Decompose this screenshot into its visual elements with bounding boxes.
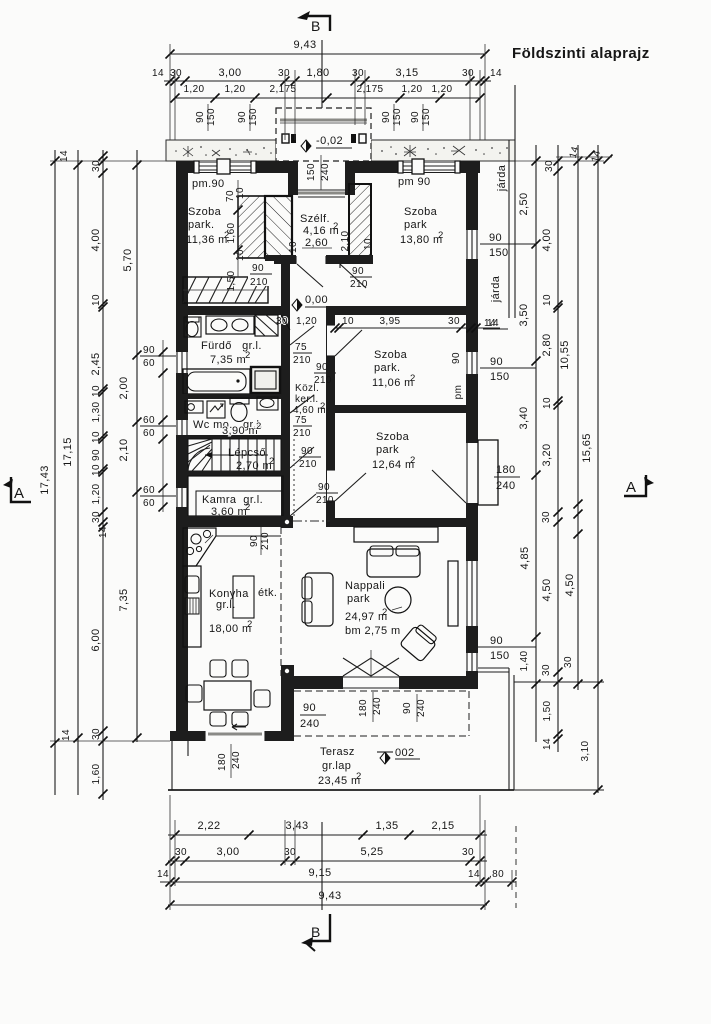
left wall tick line [159,340,168,512]
svg-text:180: 180 [217,753,228,771]
left inner dim col 5,70 2,00 2,10 7,35 [118,150,142,743]
svg-text:3,00: 3,00 [218,67,241,79]
door opening hall to szoba 13,80 (in szelfogo bottom-right) [339,305,341,307]
svg-text:10: 10 [91,294,102,306]
left wall window dims 60/60 [140,415,176,439]
right jarda outer lines [508,140,510,318]
svg-text:9,15: 9,15 [308,867,331,879]
svg-text:3,20: 3,20 [541,443,553,466]
svg-text:60: 60 [143,358,155,369]
svg-text:14: 14 [152,68,164,79]
svg-text:30: 30 [91,160,102,172]
svg-text:3,95: 3,95 [379,316,400,327]
svg-text:150: 150 [490,371,510,383]
svg-text:2,10: 2,10 [118,438,130,461]
swing szoba 12,64 terrace door [432,470,466,503]
svg-text:7,35 m: 7,35 m [210,354,246,366]
svg-text:90: 90 [252,263,264,274]
right top corner 14 14 [556,145,613,163]
svg-text:180: 180 [496,464,516,476]
svg-text:210: 210 [299,459,317,470]
svg-text:1,35: 1,35 [375,820,398,832]
left wall window dims 60/60 lower [140,485,176,509]
section trace B top [321,40,323,108]
svg-text:30: 30 [462,68,474,79]
szelfogo door opening to hall [296,255,326,264]
porch posts right [351,134,356,143]
svg-text:14: 14 [468,869,480,880]
svg-text:30: 30 [91,728,102,740]
nappali SE wall corner to fence [466,671,478,689]
svg-text:180: 180 [358,699,369,717]
svg-text:90: 90 [489,232,502,244]
svg-text:30: 30 [541,664,552,676]
dotted upper-floor edge along hall [293,439,295,516]
door swing szelfogo-hall [297,264,323,287]
wall between wc and stairs [176,435,281,439]
wardrobe hatched block right of szelfogo [349,184,371,258]
svg-text:240: 240 [231,751,242,769]
svg-text:90: 90 [91,449,102,461]
nappali sofa left [302,573,333,626]
svg-text:2: 2 [269,456,275,467]
bottom dim row 4: 9,43 [166,890,490,910]
wall between szoba 11,06 and 12,64 [330,405,466,413]
svg-text:60: 60 [143,498,155,509]
svg-text:0,00: 0,00 [305,294,328,306]
section marker B top [297,11,330,34]
washing machine dark [251,367,280,393]
svg-text:240: 240 [496,480,516,492]
svg-text:10: 10 [342,316,354,327]
svg-text:17,43: 17,43 [39,465,51,495]
right terrace door dim 180/240 [494,464,520,492]
level mark -0,02 [301,140,311,152]
wardrobe hatched block szelfogo left wall [265,196,292,258]
svg-text:14: 14 [487,318,499,329]
svg-text:90: 90 [410,111,421,123]
svg-text:2: 2 [382,607,388,618]
svg-text:90: 90 [352,266,364,277]
svg-text:15,65: 15,65 [581,433,593,463]
svg-text:Szoba: Szoba [404,206,438,218]
svg-text:2: 2 [245,502,251,513]
door gap hall to szoba 12,64 [327,470,335,501]
svg-text:1,20: 1,20 [91,483,102,504]
right wall window dim 90/150 top [480,232,536,259]
right dim col second [541,145,563,752]
svg-text:bm 2,75 m: bm 2,75 m [345,625,401,637]
right nappali window dim 90/150 [478,635,536,662]
window jamb labels 90/150 rotated, left pair 2 [237,104,259,131]
svg-text:10: 10 [542,397,553,409]
svg-text:10: 10 [91,385,102,397]
wall under szoba 13,80 [330,306,478,315]
svg-text:30: 30 [175,847,187,858]
svg-text:1,20: 1,20 [224,84,245,95]
svg-text:13,80 m: 13,80 m [400,234,443,246]
svg-text:150: 150 [489,247,509,259]
svg-text:ker.l.: ker.l. [295,394,319,405]
bottom dim row 3: 14 9,15 14 80 [157,867,517,887]
svg-text:2: 2 [320,401,326,412]
extension lines to side chains [50,160,176,162]
svg-text:2: 2 [410,373,416,384]
svg-text:1,20: 1,20 [183,84,204,95]
svg-text:Lépcső: Lépcső [228,447,266,459]
svg-text:1,60: 1,60 [91,763,102,784]
kamra door 90/210 rotated labels [290,494,316,516]
svg-text:90: 90 [303,702,316,714]
wc boiler with zigzag [207,401,225,418]
szelfogo bottom wall [265,255,373,264]
kitchen terrace door opening [205,731,265,741]
svg-text:étk.: étk. [258,587,277,599]
svg-text:90: 90 [402,702,413,714]
wall under szoba 12,64 [330,518,478,527]
wardrobe along bottom of szoba 11,36 [183,277,268,303]
window jamb labels 90/150 rotated, right pair 1 [381,104,403,131]
svg-text:2: 2 [247,619,253,630]
svg-text:Nappali: Nappali [345,580,385,592]
svg-text:2,00: 2,00 [118,376,130,399]
window right wall top (szoba 13,80) [466,230,478,259]
svg-text:park.: park. [374,362,400,374]
svg-text:90: 90 [143,345,155,356]
svg-text:30: 30 [284,847,296,858]
terrace dashed outline [294,690,469,692]
door swing hall down from szelfogo area (to 13,80) [340,264,366,288]
svg-text:1,60: 1,60 [226,222,237,243]
svg-text:90: 90 [195,111,206,123]
svg-text:2,22: 2,22 [197,820,220,832]
svg-text:3,15: 3,15 [395,67,418,79]
svg-text:park: park [347,593,370,605]
svg-text:2,80: 2,80 [541,333,553,356]
nappali sideboard top [354,527,438,542]
svg-text:3,40: 3,40 [518,406,530,429]
wc fixtures: cabinet with circle [185,401,203,413]
szoba rooms west wall (hall east wall) [326,306,335,527]
right dim col inner [518,145,541,742]
right exterior wall [466,161,478,689]
svg-text:3,43: 3,43 [285,820,308,832]
90/210 label under szelfogo right [350,266,372,290]
svg-text:park: park [376,444,399,456]
dashed property line bottom right [515,826,517,908]
svg-text:Fürdő gr.l.: Fürdő gr.l. [201,340,262,352]
section marker B bottom [301,914,330,951]
svg-text:10: 10 [235,187,246,199]
svg-text:240: 240 [372,697,383,715]
wc sink [257,397,278,410]
wc toilet [230,398,249,422]
sidewalk stipple band right of porch [371,140,515,161]
svg-text:14: 14 [59,150,70,162]
svg-text:gr.lap: gr.lap [322,760,351,772]
nappali round table [385,587,411,613]
svg-text:1,20: 1,20 [296,316,317,327]
left dim col total 17,43 [39,150,60,795]
kamra bottom wall [176,516,281,527]
top dim row 3: 1,20 1,20 2,175 2,175 1,20 1,20 [171,84,485,103]
top exterior wall right part [349,161,480,173]
svg-text:járda: járda [496,164,508,192]
svg-text:10: 10 [288,241,299,253]
svg-text:,80: ,80 [489,869,504,880]
svg-text:pm 90: pm 90 [398,176,431,188]
svg-text:2: 2 [356,771,362,782]
section marker A left [3,477,31,502]
wall between fürdő and wc [176,394,281,399]
bottom dim row 2: 30 3,00 30 5,25 30 [166,846,488,866]
window pm 90 in top wall right [398,159,460,174]
svg-text:5,25: 5,25 [360,846,383,858]
svg-text:4,85: 4,85 [519,546,531,569]
chairs [210,660,226,677]
svg-text:9,43: 9,43 [293,39,316,51]
door hall 90/210 label [314,362,336,386]
svg-text:10: 10 [91,431,102,443]
svg-text:30: 30 [541,511,552,523]
svg-text:11,06 m: 11,06 m [372,377,414,389]
black post nappali SW [281,665,294,678]
svg-text:14: 14 [157,869,169,880]
dashed link kamra wall to szoba 12,64 wall [293,520,330,522]
svg-text:1,50: 1,50 [226,270,237,291]
right wall window dim 90/150 mid [480,356,536,383]
nappali bottom wall left piece [294,676,343,689]
svg-text:Földszinti alaprajz: Földszinti alaprajz [512,45,650,62]
svg-text:7,35: 7,35 [118,588,130,611]
porch posts left [282,134,289,143]
hall west wall (fürdő block east wall) [281,264,290,527]
svg-text:A: A [14,485,24,502]
svg-text:12,64 m: 12,64 m [372,459,415,471]
svg-text:240: 240 [300,718,320,730]
fürdő basin counter with two sinks [206,316,254,334]
svg-text:210: 210 [250,277,268,288]
svg-text:1,30: 1,30 [91,401,102,422]
svg-text:pm: pm [453,385,464,400]
nappali terrace sliding door with X [343,676,399,689]
fürdő corner shower hatched [255,315,278,336]
svg-text:23,45 m: 23,45 m [318,775,361,787]
kitchen corner stove [183,528,281,566]
svg-text:90: 90 [249,535,260,547]
svg-text:14: 14 [490,68,502,79]
window jamb labels 90/150 rotated, right pair 2 [410,104,432,131]
svg-text:10: 10 [542,294,553,306]
door gap hall to szoba 11,06 [327,325,335,356]
level mark 0,00 in hall [292,299,302,311]
svg-text:2: 2 [438,230,444,241]
dim row inside szoba 11,06 top: 10 | 3,95 | 30 | 14 [276,316,500,333]
svg-text:park.: park. [188,219,214,231]
door wc 75/210 [290,395,314,413]
svg-text:14: 14 [61,729,72,741]
kitchen bottom wall [170,731,294,741]
wardrobe hatched block left of szelfogo (szoba side) [238,196,265,258]
svg-text:90: 90 [318,482,330,493]
svg-text:Közl.: Közl. [295,383,319,394]
svg-text:90: 90 [451,352,462,364]
svg-text:10: 10 [363,238,374,250]
window in left wall (stair) [176,488,188,507]
window in left wall (wc) [176,420,188,439]
kitchen dining table [204,681,251,710]
right leader y=682 [514,681,604,683]
svg-text:2,15: 2,15 [431,820,454,832]
svg-text:2,50: 2,50 [518,192,530,215]
svg-text:Terasz: Terasz [320,746,355,758]
svg-text:210: 210 [293,355,311,366]
svg-text:150: 150 [306,163,317,181]
entry door threshold [298,192,345,195]
svg-text:2,10: 2,10 [340,230,351,251]
svg-text:14: 14 [542,738,553,750]
svg-text:90: 90 [301,446,313,457]
svg-text:240: 240 [416,699,427,717]
door fürdő 75/210 [281,315,290,330]
svg-text:4,50: 4,50 [541,578,553,601]
window pm.90 in top wall left [194,159,256,174]
kamra room [188,476,283,516]
svg-text:240: 240 [320,163,331,181]
svg-text:30: 30 [278,68,290,79]
svg-text:-0,02: -0,02 [316,135,343,147]
svg-text:30: 30 [462,847,474,858]
kitchen left counter with sink [183,566,201,647]
svg-text:30: 30 [563,656,574,668]
svg-text:18,00 m: 18,00 m [209,623,252,635]
window in left wall (bath) [176,352,188,373]
svg-text:3,50: 3,50 [518,303,530,326]
right leader y=790 [514,789,604,791]
svg-text:A: A [626,479,636,496]
svg-text:2,60: 2,60 [305,237,328,249]
svg-text:1,40: 1,40 [519,650,530,671]
14 tick below jarda [483,318,508,329]
section marker A right [624,475,654,496]
wall stairs/kamra [176,471,281,476]
left exterior wall [176,161,188,741]
window right wall nappali [448,561,478,626]
svg-text:3,00: 3,00 [216,846,239,858]
svg-text:10: 10 [91,464,102,476]
svg-text:210: 210 [260,532,271,550]
svg-text:4,50: 4,50 [564,573,576,596]
svg-text:90: 90 [490,635,503,647]
sidewalk stipple band left of porch [166,140,276,161]
left detail dim col [90,150,109,800]
svg-text:30: 30 [448,316,460,327]
90/210 door label szoba 11,36 [248,261,274,288]
porch entry alcove side walls [288,161,298,195]
svg-text:002: 002 [395,747,415,759]
svg-text:park: park [404,219,427,231]
door 12,64 label 90/210 [316,482,338,506]
svg-text:90: 90 [381,111,392,123]
svg-text:2,45: 2,45 [90,352,102,375]
svg-text:B: B [311,18,321,34]
svg-text:1,80: 1,80 [306,67,329,79]
svg-text:gr.l.: gr.l. [216,599,236,611]
svg-text:5,70: 5,70 [122,248,134,271]
svg-text:4,00: 4,00 [541,228,553,251]
plot line bottom [168,789,514,791]
svg-text:Szélf.: Szélf. [300,213,330,225]
svg-text:75: 75 [295,415,307,426]
90/240 label kitchen-terrace [300,702,326,730]
svg-text:1,20: 1,20 [401,84,422,95]
top dim row 1: 9,43 [166,39,490,140]
svg-text:1,20: 1,20 [431,84,452,95]
svg-text:30: 30 [352,68,364,79]
svg-text:2: 2 [410,455,416,466]
svg-text:2,175: 2,175 [356,84,383,95]
svg-text:Szoba: Szoba [188,206,222,218]
svg-text:30: 30 [544,160,555,172]
svg-text:10,55: 10,55 [559,340,571,370]
section trace B bottom [321,822,323,910]
svg-text:210: 210 [316,495,334,506]
terrace door right wall (szoba 12,64) [466,440,498,505]
svg-text:210: 210 [293,428,311,439]
svg-text:60: 60 [143,415,155,426]
svg-text:pm.90: pm.90 [192,178,225,190]
left dim col 17,15 [59,150,83,795]
svg-text:2,70 m: 2,70 m [236,460,272,472]
svg-text:2: 2 [256,421,262,432]
svg-text:Szoba: Szoba [376,431,410,443]
window right wall mid (szoba 11,06) [466,352,478,374]
left wall window dims 90/60 [140,345,176,369]
top dim row 2: 14 30 3,00 30 1,80 30 3,15 30 14 [152,67,502,140]
nappali sofa center [367,546,420,577]
staircase [188,439,281,471]
svg-text:90: 90 [237,111,248,123]
svg-text:Szoba: Szoba [374,349,408,361]
fürdő top fixtures: wc [184,317,201,337]
nappali armchair rotated [400,622,440,662]
small opening right wall below nappali window [466,653,478,671]
terrace level mark 002 [380,752,390,764]
svg-text:3,10: 3,10 [580,740,591,761]
svg-text:3,90 m: 3,90 m [222,425,258,437]
svg-text:17,15: 17,15 [62,437,74,467]
svg-text:Kamra gr.l.: Kamra gr.l. [202,494,263,506]
right dim col outer [580,145,603,795]
svg-text:14: 14 [98,526,109,538]
svg-text:60: 60 [143,485,155,496]
right dim col third [559,145,583,690]
svg-text:30: 30 [91,511,102,523]
svg-text:2: 2 [245,350,251,361]
bathtub [183,369,250,394]
bottom extension lines [169,795,171,910]
kitchen/nappali dashed divider [280,527,282,676]
svg-text:11,36 m: 11,36 m [186,234,228,246]
svg-text:30: 30 [170,68,182,79]
svg-text:150: 150 [490,650,510,662]
entry porch dashed outline [276,108,371,161]
wall segment kitchen SE to nappali [281,676,294,741]
black post at kamra SE corner [281,516,293,528]
wall under szoba 11,36 [176,306,290,315]
stair door 90/210 [290,447,314,468]
top exterior wall left part [176,161,293,173]
